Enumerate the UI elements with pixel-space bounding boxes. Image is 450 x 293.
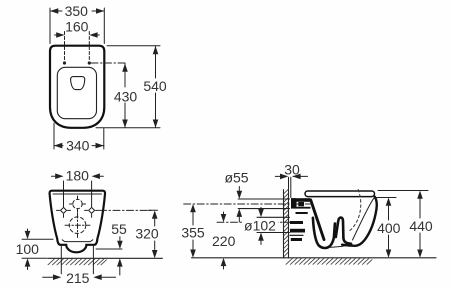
svg-text:100: 100 — [16, 241, 40, 257]
dimension 30 — [275, 176, 307, 197]
ground hatching (side view) — [286, 258, 372, 264]
svg-text:55: 55 — [111, 221, 127, 237]
toilet top-view inner seat ring — [57, 67, 96, 118]
trap weir crest — [336, 218, 351, 244]
svg-text:540: 540 — [143, 78, 167, 94]
bowl inner back line — [353, 197, 375, 240]
hole centerline dash-dot to right — [91, 62, 127, 64]
water spot shape — [71, 77, 85, 90]
seat profile bar — [305, 191, 375, 197]
svg-text:215: 215 — [66, 270, 90, 286]
dimension 180 — [51, 176, 103, 190]
outlet pipe o102 — [257, 216, 290, 218]
bracket bottom block — [291, 238, 302, 241]
fixing hole dot right — [88, 61, 91, 64]
ground hatching (front view) — [48, 259, 107, 265]
hidden bowl dashed arc — [348, 190, 361, 232]
svg-text:430: 430 — [114, 89, 138, 105]
seat top line — [53, 193, 102, 195]
front view body outline — [50, 191, 105, 253]
svg-text:160: 160 — [65, 18, 89, 34]
dimension 160 — [55, 32, 100, 62]
outlet centerline dash-dot — [217, 221, 292, 223]
bracket lower bar 1 — [290, 221, 303, 224]
dimension 440 — [378, 191, 428, 250]
dimension 340 — [54, 123, 104, 149]
dimension 540 — [96, 46, 160, 128]
hole centerline dash-dot to right (front) — [100, 209, 153, 211]
foot step line — [62, 240, 93, 242]
dimension 400 — [376, 198, 396, 250]
bracket mid bar — [296, 212, 308, 214]
bowl outer back outline — [342, 197, 377, 246]
svg-text:ø102: ø102 — [244, 218, 276, 234]
dimension 320 — [148, 209, 158, 211]
dimension o55 — [238, 187, 240, 191]
ground line (side view) — [192, 257, 437, 259]
dimension 430 — [124, 64, 126, 128]
flush channel top bar — [291, 198, 311, 202]
dimension 350 — [50, 8, 104, 44]
fixing hole right (front) — [85, 192, 99, 218]
bracket thin line — [290, 234, 303, 236]
dimension 100 — [22, 229, 53, 270]
wall hatching — [284, 189, 289, 257]
bracket lower bar 2 — [290, 229, 305, 233]
flush channel left block — [291, 198, 297, 208]
drain crosshair circle (large, center) — [65, 213, 90, 238]
svg-text:320: 320 — [135, 225, 159, 241]
ground line (front view) — [48, 257, 162, 259]
dimension 215 — [43, 246, 116, 277]
weir diagonal — [311, 200, 324, 240]
inlet centerline dash-dot — [184, 203, 310, 205]
svg-text:355: 355 — [181, 224, 205, 240]
svg-text:340: 340 — [66, 137, 90, 153]
wall section — [283, 190, 285, 258]
fixing hole left (front) — [57, 192, 71, 218]
dimension 220 — [223, 212, 225, 214]
svg-text:220: 220 — [212, 233, 236, 249]
trap U — [313, 218, 335, 248]
dimension 355 — [192, 213, 194, 226]
svg-text:440: 440 — [409, 218, 433, 234]
dimension o102 — [260, 207, 262, 209]
toilet top-view outer outline — [50, 46, 104, 128]
svg-text:350: 350 — [65, 3, 89, 19]
ceramic bottom thin line — [330, 244, 352, 247]
inlet crosshair (small, upper center) — [70, 196, 86, 212]
fixing hole dot left — [63, 61, 66, 64]
svg-text:180: 180 — [66, 167, 90, 183]
dimension 55 (front) — [96, 248, 122, 250]
flush channel bottom bar — [291, 207, 311, 209]
svg-text:ø55: ø55 — [224, 170, 248, 186]
flush channel inner rect — [298, 202, 304, 206]
inlet pipe o55 — [238, 198, 289, 200]
svg-text:400: 400 — [377, 220, 401, 236]
svg-text:30: 30 — [284, 161, 300, 177]
